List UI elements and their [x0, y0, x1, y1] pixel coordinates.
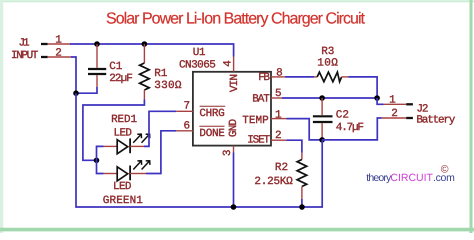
svg-text:DONE: DONE — [199, 128, 225, 140]
svg-text:VIN: VIN — [229, 75, 241, 93]
svg-text:LED: LED — [113, 181, 132, 193]
pin 3 GND lead — [233, 146, 235, 153]
connector J2 — [382, 94, 456, 126]
node junction C1 top — [94, 41, 100, 47]
node junction left rail / C1 — [73, 90, 79, 96]
svg-text:C2: C2 — [336, 109, 349, 121]
wire R1 bottom to LED feed — [83, 100, 144, 161]
wire J1.2 down to left rail — [71, 57, 76, 93]
svg-text:22µF: 22µF — [109, 73, 132, 85]
wire top rail J1.1 to U1 VIN — [70, 44, 234, 57]
svg-text:6: 6 — [183, 121, 190, 133]
svg-text:2.25KΩ: 2.25KΩ — [254, 176, 293, 188]
node junction C2 bottom / TEMP / J2.2 / gnd — [319, 137, 325, 143]
svg-text:1: 1 — [275, 109, 282, 121]
pin 7 CHRG — [176, 100, 225, 120]
wire C1 bottom to left-rail junction — [76, 87, 97, 93]
svg-text:5: 5 — [275, 88, 282, 100]
svg-text:CHRG: CHRG — [199, 108, 224, 120]
op-amp U1 CN3065 body — [179, 47, 271, 146]
pin 8 FB — [258, 67, 285, 84]
wire to LED GREEN1 anode — [97, 160, 104, 173]
svg-text:CN3065: CN3065 — [179, 59, 215, 71]
svg-text:8: 8 — [276, 67, 283, 79]
svg-text:4.7µF: 4.7µF — [336, 122, 364, 134]
watermark — [366, 164, 455, 185]
svg-text:LED: LED — [114, 128, 133, 140]
node junction LED feed — [94, 158, 100, 164]
node junction R1 top — [142, 41, 148, 47]
svg-text:BAT: BAT — [252, 94, 270, 106]
svg-text:TEMP: TEMP — [242, 115, 269, 127]
svg-text:2: 2 — [275, 130, 282, 142]
wire BAT rail — [282, 97, 377, 99]
pin 1 TEMP — [242, 109, 286, 127]
wire BAT junction down to J2 pin1 — [377, 98, 383, 104]
node junction R2 / ground rail — [299, 204, 305, 210]
wire TEMP to gnd junction — [287, 119, 323, 140]
pin 2 ISET — [247, 130, 286, 147]
wire FB to R3 — [285, 76, 314, 78]
svg-text:INPUT: INPUT — [11, 50, 39, 62]
pin 6 DONE — [176, 121, 225, 141]
node junction C2 top — [319, 95, 325, 101]
svg-text:4: 4 — [223, 60, 235, 67]
wire GREEN1 cathode to U1 DONE — [146, 131, 176, 174]
svg-text:7: 7 — [183, 100, 190, 112]
svg-text:FB: FB — [258, 72, 270, 84]
svg-text:U1: U1 — [193, 47, 206, 59]
svg-text:2: 2 — [55, 47, 62, 59]
svg-text:©: © — [441, 164, 449, 176]
svg-text:2: 2 — [391, 108, 398, 120]
svg-text:3: 3 — [222, 149, 234, 156]
node junction pin3 / ground rail — [231, 204, 237, 210]
LED RED1 — [104, 114, 150, 154]
capacitor C2 — [313, 98, 364, 140]
svg-text:1: 1 — [55, 35, 62, 47]
wire to LED RED1 anode — [97, 146, 104, 160]
wire RED1 cathode to U1 CHRG — [144, 111, 176, 146]
svg-text:Battery: Battery — [416, 114, 455, 126]
wire junction down to ground rail — [76, 93, 322, 207]
svg-text:Solar Power Li-Ion Battery Cha: Solar Power Li-Ion Battery Charger Circu… — [106, 10, 366, 27]
svg-text:R1: R1 — [154, 68, 168, 80]
resistor R1 — [140, 44, 182, 100]
wire pin3 to ground rail — [233, 153, 235, 208]
pin 4 VIN lead — [233, 57, 235, 72]
svg-text:GND: GND — [228, 119, 240, 138]
svg-text:ISET: ISET — [247, 135, 270, 147]
node junction R3/J2 — [374, 95, 380, 101]
capacitor C1 — [88, 44, 132, 87]
wire ISET to R2 — [287, 140, 302, 152]
svg-text:R3: R3 — [321, 46, 334, 58]
svg-text:10Ω: 10Ω — [317, 57, 338, 69]
resistor R3 — [314, 46, 348, 82]
connector J1 — [11, 35, 72, 62]
resistor R2 — [254, 153, 306, 208]
LED GREEN1 — [103, 161, 150, 207]
pin 5 BAT — [252, 88, 282, 106]
svg-text:C1: C1 — [109, 61, 123, 73]
svg-text:R2: R2 — [275, 162, 288, 174]
svg-text:GREEN1: GREEN1 — [103, 195, 144, 207]
wire R3 right down to BAT net — [348, 77, 377, 98]
svg-text:330Ω: 330Ω — [154, 80, 182, 92]
svg-text:RED1: RED1 — [111, 114, 137, 126]
wire junction to J2 pin2 — [322, 118, 382, 140]
svg-text:1: 1 — [389, 94, 396, 106]
